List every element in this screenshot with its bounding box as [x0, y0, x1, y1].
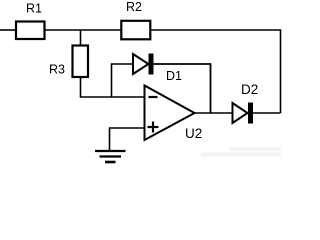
faint watermark remnant: [201, 148, 281, 157]
wire D1 cathode to output node: [154, 64, 211, 113]
op-amp minus sign: [149, 96, 158, 98]
wire op-amp output to D2: [195, 112, 233, 114]
wire R1 to R2 top: [45, 29, 121, 31]
resistor R3: [73, 46, 89, 78]
resistor R1: [16, 22, 45, 40]
wire R2 right to top-right corner and down right edge: [151, 30, 281, 113]
wire D2 cathode to right edge: [253, 112, 281, 114]
svg-text:R3: R3: [49, 63, 65, 77]
diode D1: [133, 54, 154, 75]
op-amp plus sign: [148, 122, 159, 133]
wire D1 anode branch: [112, 64, 133, 97]
svg-text:R2: R2: [126, 0, 142, 14]
svg-text:R1: R1: [26, 2, 42, 16]
ground: [95, 151, 126, 162]
op-amp U1: [145, 86, 195, 141]
diode D2: [233, 103, 254, 124]
wire non-inverting input: [110, 128, 145, 150]
svg-text:U2: U2: [185, 126, 202, 141]
svg-text:D1: D1: [166, 69, 182, 83]
svg-text:D2: D2: [241, 82, 258, 97]
resistor R2: [121, 21, 150, 40]
wire R3 bottom to inverting input: [81, 77, 145, 97]
node A junction wire R3 top: [80, 30, 82, 46]
wire input left stub: [0, 29, 16, 31]
